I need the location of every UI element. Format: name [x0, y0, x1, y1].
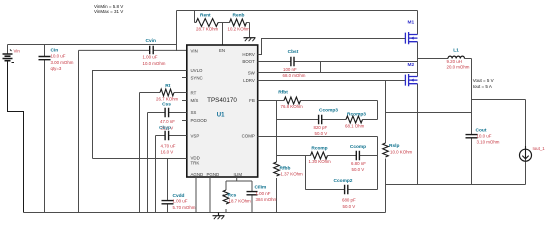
svg-text:50.0 V: 50.0 V — [352, 167, 365, 172]
wire M/S stub — [182, 100, 187, 102]
current source Iout_1 — [520, 100, 546, 185]
wire comp right rail — [377, 137, 379, 190]
svg-text:76.8 KOhm: 76.8 KOhm — [281, 104, 304, 109]
svg-text:Cbyp: Cbyp — [159, 125, 171, 131]
svg-text:68.1 Ohm: 68.1 Ohm — [345, 124, 365, 129]
svg-text:18.7 KOhm: 18.7 KOhm — [229, 199, 252, 204]
resistor Rcs — [223, 181, 251, 213]
svg-text:Cilim: Cilim — [255, 185, 267, 191]
resistor Rfbt — [258, 90, 378, 120]
voltage source Vin battery — [3, 50, 24, 213]
svg-text:Rfbb: Rfbb — [280, 165, 291, 171]
svg-text:SW: SW — [248, 70, 256, 75]
svg-text:680 pF: 680 pF — [342, 198, 356, 203]
svg-text:COMP: COMP — [242, 133, 255, 138]
svg-text:384 mOhm: 384 mOhm — [256, 197, 278, 202]
svg-text:20.0 mOhm: 20.0 mOhm — [447, 64, 470, 69]
svg-text:Rcomp: Rcomp — [311, 145, 327, 151]
svg-text:Rt: Rt — [165, 83, 170, 89]
svg-text:16.0 V: 16.0 V — [161, 150, 174, 155]
svg-text:Ccomp: Ccomp — [350, 144, 366, 150]
svg-text:10.0 uF: 10.0 uF — [477, 134, 492, 139]
svg-text:TPS40170: TPS40170 — [207, 97, 237, 104]
svg-text:Ccomp2: Ccomp2 — [334, 178, 353, 184]
svg-text:Rcs: Rcs — [228, 193, 237, 199]
inductor L1 — [418, 48, 472, 70]
svg-text:50.0 V: 50.0 V — [315, 131, 328, 136]
wire Vout node — [386, 59, 526, 135]
IC U1 TPS40170 — [187, 45, 258, 177]
svg-text:Cbst: Cbst — [288, 49, 299, 55]
svg-text:M2: M2 — [408, 62, 415, 68]
svg-text:10.2 KOhm: 10.2 KOhm — [228, 27, 251, 32]
svg-text:Vin: Vin — [14, 49, 21, 54]
wire COMP row — [258, 136, 378, 138]
wire UVLO to VDD — [93, 71, 187, 159]
capacitor Css — [148, 102, 187, 213]
svg-text:5.70 mOhm: 5.70 mOhm — [173, 205, 196, 210]
wire ILIM — [226, 177, 252, 181]
svg-text:50.0 V: 50.0 V — [343, 204, 356, 209]
svg-text:Ccomp3: Ccomp3 — [319, 108, 338, 114]
capacitor Ccomp3 — [277, 108, 347, 137]
svg-text:TRK: TRK — [191, 160, 200, 165]
wire HDRV to M1 gate — [258, 39, 406, 55]
resistor Rslp — [383, 81, 413, 213]
svg-text:3.00 mOhm: 3.00 mOhm — [51, 60, 74, 65]
svg-text:VinMax = 31 V: VinMax = 31 V — [94, 9, 123, 14]
svg-text:1.30 KOhm: 1.30 KOhm — [309, 159, 332, 164]
ground symbol main — [213, 213, 225, 220]
capacitor Ccomp2 — [305, 178, 377, 209]
wire EN — [222, 23, 224, 46]
capacitor Cout — [466, 128, 500, 185]
svg-text:M1: M1 — [408, 20, 415, 26]
svg-text:Css: Css — [162, 102, 171, 108]
resistor Rt — [140, 83, 187, 212]
wire AGND — [195, 177, 197, 213]
svg-text:10.0 mOhm: 10.0 mOhm — [143, 61, 166, 66]
svg-text:M/S: M/S — [191, 98, 199, 103]
svg-text:820 pF: 820 pF — [314, 125, 328, 130]
svg-text:BOOT: BOOT — [242, 59, 255, 64]
wire PGOOD stub — [182, 120, 187, 122]
capacitor Cvin — [79, 38, 188, 213]
resistor Renb — [228, 13, 251, 37]
svg-text:VSP: VSP — [191, 133, 200, 138]
svg-text:1.00 uF: 1.00 uF — [143, 55, 158, 60]
svg-text:28.7 KOhm: 28.7 KOhm — [196, 27, 219, 32]
ground under Renb — [244, 38, 256, 42]
svg-text:PGND: PGND — [207, 172, 220, 177]
capacitor Cbyp on VSP — [156, 125, 187, 213]
svg-text:LDRV: LDRV — [243, 78, 255, 83]
transistor M1 — [405, 11, 417, 77]
svg-text:SS: SS — [191, 110, 197, 115]
wire LDRV to M2 gate — [258, 80, 406, 82]
svg-text:Iout_1: Iout_1 — [533, 146, 546, 151]
resistor Rent — [195, 11, 230, 32]
svg-text:1.00 nF: 1.00 nF — [256, 191, 271, 196]
capacitor Cin — [39, 45, 74, 213]
svg-text:ILIM: ILIM — [234, 172, 243, 177]
svg-text:UVLO: UVLO — [191, 68, 204, 73]
capacitor Cilim — [247, 181, 278, 213]
svg-text:26.7 KOhm: 26.7 KOhm — [156, 97, 179, 102]
wire right ground row — [386, 184, 526, 186]
svg-text:Vout = 5 V: Vout = 5 V — [473, 78, 494, 83]
svg-text:Iout = 5 A: Iout = 5 A — [473, 84, 492, 89]
svg-text:RT: RT — [191, 90, 197, 95]
svg-text:HDRV: HDRV — [242, 52, 254, 57]
svg-text:1.00 uF: 1.00 uF — [173, 199, 188, 204]
resistor Rcomp — [277, 145, 332, 189]
svg-text:AGND: AGND — [191, 172, 204, 177]
transistor M2 — [405, 62, 417, 185]
svg-text:68.0 mOhm: 68.0 mOhm — [283, 73, 306, 78]
svg-text:VIN: VIN — [191, 49, 198, 54]
wire FB vertical with resistor Rfbb — [274, 101, 303, 213]
svg-text:10.0 uF: 10.0 uF — [51, 54, 66, 59]
svg-text:qty=3: qty=3 — [51, 66, 62, 71]
svg-text:Renb: Renb — [233, 13, 245, 19]
svg-text:SYNC: SYNC — [191, 75, 203, 80]
resistor Rcomp3 — [345, 112, 378, 129]
svg-text:PGOOD: PGOOD — [191, 118, 207, 123]
wire SYNC stub — [182, 77, 187, 79]
svg-text:9.20 uH: 9.20 uH — [447, 59, 462, 64]
wire VIN top rail — [8, 11, 418, 54]
svg-text:47.0 nF: 47.0 nF — [160, 119, 175, 124]
svg-text:Rcomp3: Rcomp3 — [347, 112, 366, 118]
wire SW row — [258, 72, 418, 74]
svg-text:L1: L1 — [453, 48, 459, 54]
wire PGND — [209, 177, 211, 213]
svg-text:3.10 mOhm: 3.10 mOhm — [477, 140, 500, 145]
svg-text:6.80 nF: 6.80 nF — [351, 161, 366, 166]
svg-text:Rfbt: Rfbt — [278, 90, 288, 96]
svg-text:U1: U1 — [217, 112, 225, 118]
svg-text:EN: EN — [219, 48, 225, 53]
capacitor Cbst — [258, 49, 418, 78]
svg-text:Rent: Rent — [200, 13, 211, 19]
svg-text:Rslp: Rslp — [389, 143, 399, 149]
pin labels U1 (VIN EN UVLO SYNC RT M/S SS PGOOD VSP VDD TRK AGND PGND ILIM HDRV BOOT SW LDRV FB COMP) — [191, 48, 256, 177]
wire ground bus — [24, 212, 386, 214]
capacitor Ccomp — [328, 144, 378, 172]
capacitor Cvdd — [162, 159, 196, 213]
svg-text:FB: FB — [249, 98, 255, 103]
svg-text:Cvin: Cvin — [146, 38, 156, 44]
svg-text:4.70 uF: 4.70 uF — [161, 144, 176, 149]
svg-text:10.0 KOhm: 10.0 KOhm — [390, 150, 413, 155]
svg-text:100 nF: 100 nF — [283, 67, 297, 72]
svg-text:1.37 KOhm: 1.37 KOhm — [281, 172, 304, 177]
